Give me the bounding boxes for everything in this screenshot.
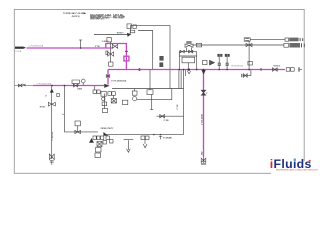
svg-text:TO PIPE LINE 2"-PG-381: TO PIPE LINE 2"-PG-381 (63, 13, 84, 15)
svg-text:2": 2" (63, 113, 65, 115)
svg-text:SP-101 SP-102: SP-101 SP-102 (231, 66, 243, 68)
svg-text:V-38101: V-38101 (102, 41, 109, 43)
svg-text:NOTE 5: NOTE 5 (117, 32, 124, 34)
svg-text:2" N5: 2" N5 (95, 46, 100, 48)
svg-text:(NOTE 2): (NOTE 2) (72, 16, 80, 18)
svg-text:FROM UTILITY: FROM UTILITY (101, 128, 114, 130)
svg-text:2": 2" (45, 96, 47, 98)
svg-text:NOTE: NOTE (40, 107, 46, 109)
svg-text:NOTE 3: NOTE 3 (274, 66, 281, 68)
svg-text:2"-ND-101: 2"-ND-101 (52, 132, 54, 141)
svg-text:2"-ND: 2"-ND (177, 104, 179, 110)
svg-text:2"-ND: 2"-ND (164, 120, 170, 122)
svg-text:2": 2" (206, 93, 208, 95)
svg-text:iFluids: iFluids (270, 157, 312, 171)
svg-text:TYPE: HORIZ: TYPE: HORIZ (113, 18, 124, 20)
svg-text:DN50: DN50 (77, 88, 82, 90)
svg-text:2"-PG-B: 2"-PG-B (15, 51, 22, 53)
